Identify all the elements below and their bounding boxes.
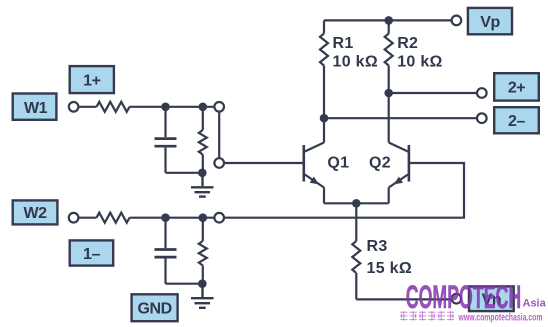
wire probe link [218, 112, 220, 159]
svg-text:Q1: Q1 [327, 155, 349, 172]
wire R3 to Vn [356, 298, 451, 300]
svg-text:W2: W2 [23, 205, 47, 222]
label 1- [70, 240, 114, 265]
resistor R3 15 kOhm [352, 203, 412, 299]
svg-text:R3: R3 [367, 238, 388, 255]
resistor W1 series [78, 102, 129, 112]
svg-text:Vp: Vp [480, 14, 500, 31]
svg-text:R1: R1 [333, 35, 354, 52]
svg-text:1+: 1+ [83, 72, 100, 89]
svg-text:R2: R2 [397, 35, 418, 52]
terminal probe circle top [214, 102, 224, 112]
svg-text:GND: GND [137, 301, 171, 318]
svg-text:10 kΩ: 10 kΩ [333, 53, 378, 70]
resistor W2 series [78, 213, 129, 223]
terminal 2+ circle [477, 88, 487, 98]
node R2 top junction [384, 16, 393, 25]
terminal W1 circle [69, 102, 79, 112]
svg-text:2+: 2+ [508, 80, 525, 97]
terminal W2 circle [69, 213, 79, 223]
label 2+ [494, 73, 539, 100]
wire Q1 base [224, 162, 303, 164]
wire W2 RC bottom [166, 283, 203, 285]
wire W1 RC bottom [166, 172, 203, 174]
node W1 shunt tap [199, 103, 208, 112]
capacitor W1 filter [155, 107, 177, 173]
resistor W2 shunt [199, 218, 207, 284]
svg-text:10 kΩ: 10 kΩ [397, 53, 442, 70]
label 1+ [70, 66, 114, 93]
transistor Q2 [369, 93, 409, 203]
svg-text:15 kΩ: 15 kΩ [367, 260, 412, 277]
node W2 cap tap [161, 213, 170, 222]
terminal Vn circle [452, 294, 462, 304]
wire top supply rail [324, 19, 452, 21]
svg-text:Asia: Asia [523, 298, 547, 310]
wire Q2 base to right elbow [224, 163, 464, 218]
node R2 bottom junction [384, 89, 393, 98]
node W1 cap tap [161, 103, 170, 112]
resistor R2 10 kOhm [385, 20, 443, 93]
node W1 RC bottom junction [198, 169, 207, 178]
wire emitter rail [324, 202, 389, 204]
resistor R1 10 kOhm [320, 20, 378, 118]
ground W2 [191, 284, 214, 308]
wire W1 row [130, 106, 215, 108]
node emitter junction [352, 199, 361, 208]
svg-text:2–: 2– [508, 113, 525, 130]
label Vn [469, 286, 514, 311]
label Vp [468, 8, 512, 34]
svg-text:COMPOTECH: COMPOTECH [406, 279, 521, 315]
transistor Q1 [304, 118, 350, 203]
svg-text:W1: W1 [24, 100, 48, 117]
svg-text:Q2: Q2 [369, 155, 391, 172]
label W1 [13, 94, 57, 120]
node W2 RC bottom junction [198, 279, 207, 288]
node Q1 collector junction [320, 114, 329, 123]
capacitor W2 filter [155, 218, 177, 284]
label 2- [494, 107, 539, 133]
label GND [132, 294, 178, 321]
resistor W1 shunt [199, 107, 207, 173]
terminal probe circle W2 [214, 213, 224, 223]
terminal probe circle base [214, 158, 224, 168]
wire 2+ tap [389, 92, 478, 94]
svg-text:1–: 1– [83, 246, 100, 263]
label W2 [13, 200, 58, 224]
watermark [400, 279, 546, 323]
wire 2- tap [324, 117, 477, 119]
node W2 shunt tap [199, 213, 208, 222]
wire W2 row [130, 217, 215, 219]
terminal 2- circle [477, 113, 487, 123]
ground W1 [191, 173, 214, 197]
terminal Vp circle [452, 16, 462, 26]
svg-text:www.compotechasia.com: www.compotechasia.com [458, 312, 543, 323]
